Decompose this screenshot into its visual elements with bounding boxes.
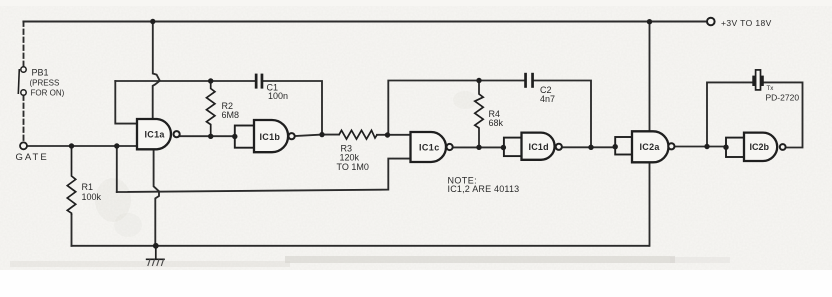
svg-text:IC2b: IC2b [750, 142, 770, 152]
svg-text:IC1c: IC1c [419, 142, 440, 152]
node: IC2a out / piezo riser [704, 144, 709, 149]
resistor R3 [339, 130, 377, 139]
piezo sounder WD1 [752, 70, 764, 90]
gate IC1b [235, 120, 295, 152]
node: gate line / R1 [69, 143, 74, 148]
svg-text:IC2a: IC2a [640, 142, 661, 152]
wire: supply drop to IC1a with crossover jog [153, 22, 160, 120]
svg-text:68k: 68k [489, 118, 504, 128]
node: R2 bottom [208, 134, 213, 139]
wire: ground bus [72, 245, 649, 247]
gate IC1a [137, 119, 180, 149]
wire: R1 bottom to ground bus [71, 215, 73, 246]
wire: +V supply rail [24, 20, 708, 22]
label R2 value [222, 101, 240, 120]
scan artifact band [10, 91, 730, 267]
node: IC2a input [613, 144, 618, 149]
node GATE terminal [16, 142, 49, 163]
svg-text:PD-2720: PD-2720 [766, 93, 800, 103]
node: IC1b input [232, 134, 237, 139]
label C1 value [267, 83, 289, 102]
capacitor C1 [255, 74, 264, 89]
wire: piezo to IC2b output loop [763, 82, 802, 147]
node: C1 / IC1b out [319, 132, 324, 137]
pushbutton PB1 [18, 67, 26, 95]
node: R4 top [476, 78, 481, 83]
capacitor C2 [524, 73, 534, 88]
wire: feedback to IC1a top input [115, 81, 137, 124]
label C2 value [540, 85, 555, 104]
note text [448, 176, 520, 194]
resistor R2 [207, 81, 215, 136]
wire: IC1b output to R3 [295, 135, 339, 136]
wire: IC1a output to IC1b input [180, 135, 235, 137]
svg-text:IC1,2 ARE 40113: IC1,2 ARE 40113 [448, 184, 520, 194]
wire: C2 node line [388, 81, 524, 136]
svg-text:100k: 100k [82, 192, 102, 202]
wire: IC1a bottom to ground with crossover jog [154, 149, 159, 246]
svg-text:Tx: Tx [767, 85, 775, 92]
gate IC1d [504, 133, 562, 160]
label R4 value [489, 109, 504, 128]
svg-text:6M8: 6M8 [222, 110, 240, 120]
gate IC2a [615, 131, 674, 162]
svg-text:IC1b: IC1b [260, 132, 281, 142]
wire: long line to IC1c lower input [117, 159, 411, 192]
wire: IC2a bottom to ground bus [649, 162, 651, 246]
wire: C1 right to IC1b output line [263, 81, 322, 135]
wire: astable node line to C1 [115, 80, 255, 82]
node: IC2b input [723, 145, 728, 150]
wire: dashed link PB1 top [23, 22, 25, 67]
node: rail / IC1a supply [150, 19, 155, 24]
wire: IC2a output to IC2b input [675, 146, 727, 148]
label PB1 [30, 68, 65, 98]
wire: IC1d output to IC2a input [562, 146, 615, 148]
svg-text:4n7: 4n7 [540, 94, 555, 104]
svg-text:FOR ON): FOR ON) [31, 89, 65, 98]
wire: R3 to IC1c input [377, 134, 411, 136]
node: gate line / riser [114, 143, 119, 148]
node: rail / IC2a supply [647, 19, 652, 24]
wire: riser to piezo loop [707, 82, 752, 146]
svg-text:IC1d: IC1d [529, 142, 549, 152]
svg-text:IC1a: IC1a [145, 130, 166, 140]
label R3 value [337, 144, 369, 172]
resistor R4 [475, 81, 483, 148]
node: R3 / C2 riser [385, 132, 390, 137]
wire: C2 right drop to IC1d output [534, 81, 591, 148]
resistor R1 [67, 146, 75, 215]
svg-text:100n: 100n [268, 91, 288, 101]
wire: GATE line to IC1a input [27, 145, 137, 147]
node: IC1d input [501, 145, 506, 150]
svg-text:GATE: GATE [16, 152, 49, 163]
gate IC1c [411, 132, 453, 162]
svg-text:R1: R1 [82, 182, 94, 192]
node +V terminal [707, 18, 772, 28]
node: ground bus / ground symbol [153, 243, 159, 249]
node: R4 bottom [476, 145, 481, 150]
ground [146, 246, 165, 266]
node: C2 / IC1d out [588, 145, 593, 150]
svg-text:(PRESS: (PRESS [30, 79, 60, 88]
label R1 value [82, 182, 102, 202]
label piezo PD-2720 [766, 85, 800, 103]
node: astable / R2 top [208, 78, 213, 83]
svg-text:TO 1M0: TO 1M0 [337, 162, 369, 172]
wire: IC1c output to IC1d input [453, 146, 504, 148]
wire: gate node riser [116, 146, 118, 192]
wire: dashed link PB1 to GATE [23, 96, 25, 142]
gate IC2b [726, 133, 786, 161]
svg-text:PB1: PB1 [32, 68, 49, 78]
wire: supply drop to IC2a top [649, 22, 651, 132]
svg-text:+3V TO 18V: +3V TO 18V [721, 18, 772, 28]
